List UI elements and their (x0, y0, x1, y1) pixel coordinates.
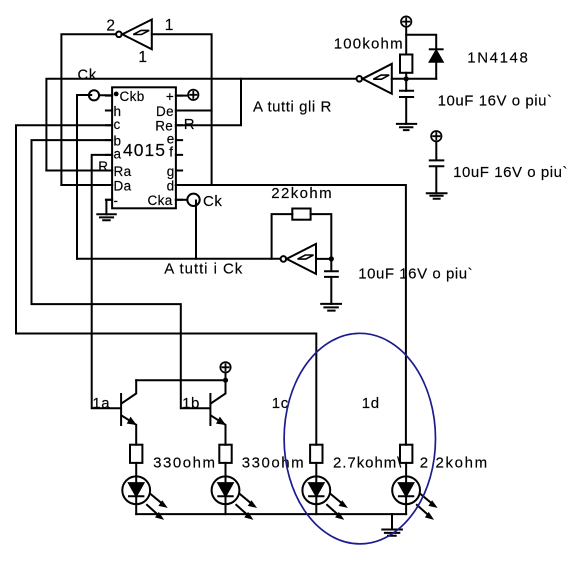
svg-text:2 2kohm: 2 2kohm (420, 455, 489, 472)
svg-text:1b: 1b (182, 395, 200, 412)
resistor R3 100kohm (400, 55, 412, 73)
transistor Q1b (210, 380, 225, 445)
svg-text:1d: 1d (362, 395, 380, 412)
svg-text:+: + (166, 89, 174, 104)
wire U1 output to feedback vertical (61, 34, 115, 185)
svg-text:330ohm: 330ohm (242, 455, 306, 472)
node junction U3 input (329, 256, 334, 261)
highlight ellipse (blue) (284, 333, 435, 544)
svg-text:g: g (167, 164, 175, 179)
wire reset branch to Re (176, 79, 241, 126)
wire U1 input from De/d node (152, 34, 212, 185)
inverter U1 (Schmitt NOT gate, top left) (116, 20, 152, 50)
wire Ck distribution line (A tutti i Ck) (77, 258, 280, 260)
resistor R6 2.7kohm (310, 445, 322, 463)
svg-text:Ckb: Ckb (120, 89, 145, 104)
label R (Ra) (98, 159, 108, 174)
wire diode branch top (406, 35, 436, 50)
svg-text:A tutti i Ck: A tutti i Ck (164, 261, 243, 278)
pin label a (114, 146, 122, 161)
pin label minus (114, 193, 119, 208)
ground G3 (427, 193, 447, 199)
wire bottom rail (136, 513, 406, 515)
svg-text:1N4148: 1N4148 (467, 49, 529, 66)
IC U2 4015 body (112, 87, 176, 208)
svg-text:2: 2 (106, 18, 115, 35)
label 100kohm (334, 36, 404, 53)
capacitor C2 (430, 142, 444, 193)
label Ck (Cka) (203, 193, 222, 210)
pin label f (169, 145, 173, 160)
LED D3 (212, 463, 256, 519)
pin label De (156, 104, 174, 119)
svg-text:4015: 4015 (123, 140, 166, 160)
wire 100k bottom to node (405, 73, 407, 91)
wire U3 input (316, 258, 331, 260)
svg-text:10uF 16V o piu`: 10uF 16V o piu` (453, 164, 568, 181)
label A tutti i Ck (164, 261, 243, 278)
svg-text:-: - (114, 193, 119, 208)
power symbol P4 (220, 362, 230, 380)
label Ck (78, 68, 98, 84)
wire collector rail (136, 379, 225, 381)
wire U4 input node (392, 78, 436, 80)
label 4015 (123, 140, 166, 160)
label pin 2 (106, 18, 115, 35)
power symbol P1 (+ pin) (176, 90, 199, 100)
pin label plus (166, 89, 174, 104)
pin ticks left (h, -) (106, 96, 112, 200)
svg-text:a: a (114, 146, 122, 161)
power symbol P3 (431, 131, 441, 141)
wire De to feedback vertical (176, 110, 212, 112)
svg-text:Ra: Ra (114, 164, 132, 179)
label 330ohm (1a) (153, 455, 217, 472)
svg-text:R: R (184, 116, 195, 133)
pin label Re (155, 119, 173, 134)
label 10uF 16V o piu` (C2) (453, 164, 568, 181)
inverter U4 (reset generator) (357, 64, 392, 94)
label A tutti gli R (253, 98, 332, 115)
label gate 1 (138, 49, 147, 66)
wire Da to inverter output vertical (61, 184, 112, 186)
clock bubble Ckb (89, 90, 99, 100)
pin label g (167, 164, 175, 179)
svg-text:R: R (98, 159, 108, 174)
wire Ra (46, 170, 112, 172)
inverter U3 (22k oscillator) (281, 244, 316, 274)
svg-text:Ck: Ck (78, 68, 98, 84)
wire Ckb to Ck distribution line (77, 95, 112, 259)
label 1a (92, 395, 110, 412)
svg-text:c: c (114, 117, 121, 132)
svg-text:d: d (167, 178, 175, 193)
label 1b (182, 395, 200, 412)
svg-text:100kohm: 100kohm (334, 36, 404, 53)
resistor R5 330ohm (219, 445, 231, 463)
svg-text:f: f (169, 145, 173, 160)
label 330ohm (1b) (242, 455, 306, 472)
node junction collector rail (223, 378, 228, 383)
pin label e (167, 132, 175, 147)
svg-text:22kohm: 22kohm (271, 185, 333, 202)
ground G5 (bottom rail) (382, 514, 402, 536)
pin label d (167, 178, 175, 193)
label 2 2kohm (420, 455, 489, 472)
pin label Da (114, 178, 132, 193)
diode D1 1N4148 (430, 49, 443, 79)
label R (Re) (184, 116, 195, 133)
wire d pin to 1d branch (176, 185, 406, 445)
ground G4 (321, 304, 341, 311)
label 22kohm (271, 185, 333, 202)
svg-text:De: De (156, 104, 174, 119)
transistor Q1a (121, 380, 136, 445)
node junction reset RC (404, 76, 409, 81)
clock bubble Cka (176, 194, 200, 206)
label 10uF 16V o piu` (reset) (438, 92, 553, 109)
label 2.7kohm (333, 455, 402, 472)
pin label h (114, 104, 122, 119)
svg-text:2.7kohm\: 2.7kohm\ (333, 455, 402, 472)
label 10uF 16V o piu` (osc) (358, 266, 473, 283)
wire c pin route to 1c branch (16, 125, 316, 444)
svg-text:10uF 16V o piu`: 10uF 16V o piu` (358, 266, 473, 283)
wire a pin route to 1a base (92, 155, 121, 408)
resistor R2 22kohm (292, 209, 310, 220)
resistor R7 2.2kohm (400, 445, 412, 463)
LED D2 (122, 463, 166, 519)
capacitor C3 (325, 259, 338, 304)
ground G1 (IC - pin) (97, 200, 116, 221)
pin label b (114, 133, 122, 148)
svg-text:Cka: Cka (148, 193, 173, 208)
svg-text:Ck: Ck (203, 193, 222, 210)
wire b pin route to 1b base (32, 140, 210, 408)
capacitor C1 (400, 91, 413, 124)
ground G2 (397, 124, 416, 130)
label 1N4148 (467, 49, 529, 66)
svg-text:1: 1 (138, 49, 147, 66)
pin ticks right (e,f,g) (176, 96, 182, 200)
label 1c (272, 395, 289, 412)
svg-text:1a: 1a (92, 395, 110, 412)
power symbol P2 (401, 16, 411, 54)
pin label Ckb with bullet (114, 89, 145, 104)
pin label c (114, 117, 121, 132)
LED D4 (302, 463, 346, 519)
svg-text:330ohm: 330ohm (153, 455, 217, 472)
wire 22k right leg (311, 214, 332, 259)
svg-text:1: 1 (165, 17, 174, 34)
svg-text:A tutti gli R: A tutti gli R (253, 98, 332, 115)
pin label Ra (114, 164, 132, 179)
svg-text:10uF 16V o piu`: 10uF 16V o piu` (438, 92, 553, 109)
label pin 1 (165, 17, 174, 34)
wire Cka down to Ck line (195, 201, 197, 259)
pin label Cka (148, 193, 173, 208)
label 1d (362, 395, 380, 412)
LED D5 (392, 463, 436, 519)
resistor R4 330ohm (130, 445, 142, 463)
wire reset line (A tutti gli R) (46, 79, 355, 171)
wire 22k left leg (272, 214, 293, 259)
svg-text:Da: Da (114, 178, 132, 193)
